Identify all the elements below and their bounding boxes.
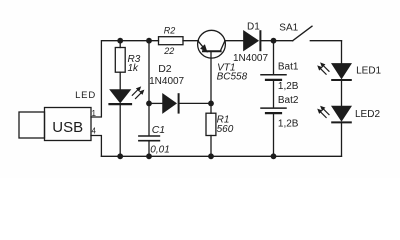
wire LED1 to LED2 bbox=[341, 81, 343, 106]
wire Bat1 to Bat2 bbox=[273, 81, 275, 107]
svg-text:D1: D1 bbox=[247, 22, 260, 33]
transistor VT1 base bar bbox=[203, 50, 221, 52]
diode D2 cathode bar bbox=[178, 94, 180, 112]
node top rail R3 junction bbox=[117, 38, 123, 44]
diode D2 triangle bbox=[163, 94, 176, 112]
wire D1 to switch bbox=[261, 40, 292, 42]
LED indicator cathode bar bbox=[110, 103, 132, 105]
node bottom rail C1 junction bbox=[146, 153, 152, 159]
LED1 cathode bar bbox=[332, 79, 351, 81]
svg-text:LED: LED bbox=[75, 90, 96, 101]
battery Bat1 short plate bbox=[266, 79, 281, 81]
transistor U1 circle VT1 bbox=[198, 30, 226, 58]
svg-text:560: 560 bbox=[217, 124, 234, 135]
wire transistor base junction to R1 bbox=[210, 103, 212, 113]
svg-text:4: 4 bbox=[92, 126, 97, 135]
wire R1 to bottom rail bbox=[210, 136, 212, 157]
LED2 arrow a bbox=[324, 109, 330, 115]
svg-text:Bat1: Bat1 bbox=[278, 61, 299, 72]
transistor VT1 emitter arrow bbox=[201, 45, 207, 52]
wire D2 horizontal from junction bbox=[149, 102, 163, 104]
wire switch fixed contact to right column bbox=[310, 40, 341, 42]
switch SA1 blade bbox=[293, 26, 312, 41]
wire USB pin4 stub to bottom rail bbox=[91, 136, 101, 157]
wire transistor collector to D1 bbox=[225, 40, 244, 42]
USB connector box bbox=[45, 108, 92, 141]
LED indicator arrow a bbox=[132, 90, 138, 96]
wire R2 to transistor base-circle bbox=[183, 40, 198, 42]
transistor VT1 emitter slant bbox=[198, 41, 204, 48]
svg-text:1N4007: 1N4007 bbox=[233, 53, 268, 64]
capacitor C1 bottom plate bbox=[139, 140, 160, 142]
wire LED indicator down to bottom rail bbox=[119, 105, 121, 156]
svg-text:LED2: LED2 bbox=[355, 109, 380, 120]
wire bottom rail bbox=[101, 155, 341, 157]
LED1 triangle bbox=[332, 64, 351, 78]
node bottom rail LED junction bbox=[117, 153, 123, 159]
svg-text:1k: 1k bbox=[128, 63, 140, 74]
node junction dots bbox=[117, 38, 276, 159]
svg-text:22: 22 bbox=[163, 46, 174, 56]
battery column wire from top junction bbox=[273, 41, 275, 74]
node bottom rail R1 junction bbox=[208, 153, 214, 159]
svg-text:1: 1 bbox=[92, 109, 97, 118]
wire C1 top lead bbox=[148, 103, 150, 135]
svg-text:1,2В: 1,2В bbox=[278, 118, 299, 129]
svg-text:0,01: 0,01 bbox=[150, 145, 169, 156]
LED2 cathode bar bbox=[332, 121, 351, 123]
USB plug rectangle bbox=[19, 112, 45, 138]
resistor R1 bbox=[206, 113, 216, 135]
resistor R3 bbox=[115, 48, 125, 73]
wire R3 branch from top rail bbox=[119, 41, 121, 48]
wire C1/D2 branch from top rail down bbox=[148, 41, 150, 104]
node top rail C1 junction bbox=[146, 38, 152, 44]
svg-text:C1: C1 bbox=[152, 124, 165, 136]
wire top rail left segment with corner to USB pin 1 bbox=[91, 41, 159, 117]
svg-text:BC558: BC558 bbox=[217, 72, 248, 83]
svg-text:1N4007: 1N4007 bbox=[149, 76, 184, 87]
svg-text:LED1: LED1 bbox=[356, 66, 381, 77]
battery Bat2 short plate bbox=[266, 112, 281, 114]
svg-text:SA1: SA1 bbox=[279, 23, 298, 34]
wire Bat2 down to bottom rail bbox=[273, 114, 275, 156]
wire right column down to LED1 bbox=[341, 41, 343, 64]
LED indicator triangle bbox=[111, 90, 131, 102]
wire transistor base lead down bbox=[210, 52, 212, 103]
diode D1 triangle bbox=[244, 31, 258, 50]
svg-text:D2: D2 bbox=[158, 63, 172, 75]
LED2 triangle bbox=[332, 106, 351, 120]
battery Bat1 long plate bbox=[261, 74, 286, 76]
LED1 arrow b bbox=[321, 69, 327, 75]
wire R3 to LED bbox=[119, 72, 121, 90]
svg-text:R2: R2 bbox=[164, 25, 176, 35]
LED indicator arrow b bbox=[136, 93, 142, 99]
wire LED2 down to bottom rail bbox=[341, 123, 343, 156]
wire D2 to transistor base column bbox=[180, 102, 211, 104]
node bottom rail battery junction bbox=[271, 153, 277, 159]
node D2 left junction bbox=[146, 101, 152, 107]
diode D1 cathode bar bbox=[259, 31, 261, 50]
transistor VT1 collector slant bbox=[220, 41, 224, 51]
capacitor C1 top plate bbox=[139, 135, 160, 137]
wire C1 bottom lead bbox=[148, 142, 150, 157]
battery Bat2 long plate bbox=[261, 107, 286, 109]
resistor R2 bbox=[159, 37, 184, 45]
svg-text:1,2В: 1,2В bbox=[278, 81, 299, 92]
LED2 arrow b bbox=[321, 112, 327, 118]
svg-text:Bat2: Bat2 bbox=[278, 95, 299, 106]
node transistor base junction bbox=[208, 101, 214, 107]
node top rail battery junction bbox=[271, 38, 277, 44]
LED1 arrow a bbox=[324, 66, 330, 72]
svg-text:USB: USB bbox=[52, 119, 83, 136]
